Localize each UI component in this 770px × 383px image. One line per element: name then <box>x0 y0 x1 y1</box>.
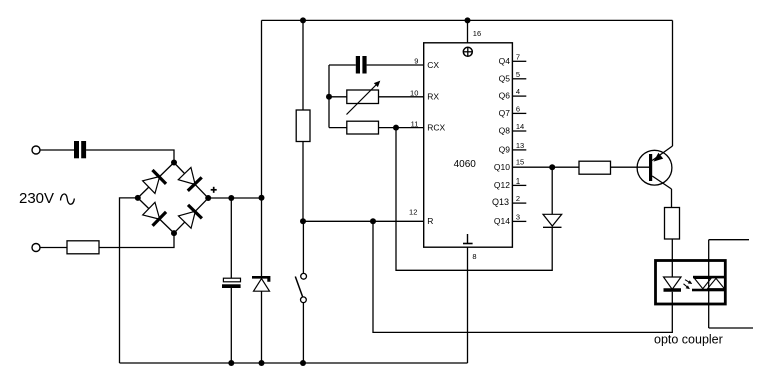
opto light arrow 1 <box>685 280 692 284</box>
svg-text:1: 1 <box>516 177 521 186</box>
wire RX left segment <box>329 96 347 98</box>
wire Q10 pin 15 line <box>512 166 579 168</box>
wire CX left segment <box>329 64 356 66</box>
wire C2 branch lower <box>230 288 232 363</box>
svg-text:8: 8 <box>472 252 476 261</box>
label plus <box>211 187 217 193</box>
wire emitter to top rail <box>672 20 674 146</box>
node Q10 diode junction <box>549 164 555 170</box>
IC U1 4060 body <box>424 43 513 247</box>
opto triac bottom bar <box>692 289 725 292</box>
svg-text:11: 11 <box>411 120 419 129</box>
resistor R5 <box>665 208 680 240</box>
wire pin 8 to bottom rail <box>467 247 469 363</box>
pin stub Q4 <box>512 60 526 62</box>
node pin16 top rail junction <box>465 17 471 23</box>
potentiometer P1 body <box>347 90 379 104</box>
AC sine symbol <box>61 194 75 204</box>
node bridge left <box>135 195 141 201</box>
svg-text:Q14: Q14 <box>494 216 510 226</box>
svg-text:5: 5 <box>516 70 520 79</box>
node loop RX junction <box>326 94 332 100</box>
potentiometer P1 arrow <box>347 81 381 115</box>
wire ZD1 to bottom rail <box>261 291 263 363</box>
node R line return junction <box>370 218 376 224</box>
svg-text:7: 7 <box>516 52 520 61</box>
wire R1 to bridge bottom node <box>99 233 174 248</box>
wire R5 to LED anode <box>671 239 673 277</box>
wire RCX right segment to pin 11 <box>379 127 424 129</box>
pin stub Q12 <box>512 184 526 186</box>
svg-text:Q8: Q8 <box>499 126 511 136</box>
node switch bottom rail junction <box>300 360 306 366</box>
wire triac top stub <box>709 239 749 241</box>
wire pin 16 to top rail <box>467 20 469 42</box>
wire C1 to bridge top node <box>86 150 174 163</box>
bridge diode D1 (left node to top node) <box>131 156 181 205</box>
pin stub Q5 <box>512 78 526 80</box>
svg-text:2: 2 <box>516 194 520 203</box>
bridge diode D3 (left node to bottom node) <box>131 191 181 240</box>
svg-text:10: 10 <box>410 88 418 97</box>
opto coupler U2 box <box>656 261 726 305</box>
svg-text:16: 16 <box>473 29 481 38</box>
bridge diode D2 (top node to right node) <box>167 156 215 205</box>
wire switch lower <box>302 303 304 363</box>
zener diode ZD1 <box>252 276 270 291</box>
opto triac left triangle <box>695 278 712 288</box>
wire oscillator loop left vertical <box>328 65 330 128</box>
wire CX right segment to pin 9 <box>367 64 424 66</box>
node RCX feedback junction <box>393 125 399 131</box>
wire bridge left node to bottom rail <box>120 198 138 363</box>
wire triac vertical <box>708 240 710 328</box>
pin stub Q6 <box>512 95 526 97</box>
node bridge top <box>171 160 177 166</box>
node bridge bottom <box>171 230 177 236</box>
svg-text:opto coupler: opto coupler <box>654 333 723 347</box>
wire switch upper <box>302 221 304 273</box>
wire terminal to C1 <box>40 149 74 151</box>
resistor R4 base resistor <box>579 161 611 174</box>
svg-text:3: 3 <box>516 212 520 221</box>
svg-text:13: 13 <box>516 141 524 150</box>
node C2 top junction <box>228 195 234 201</box>
wire bridge right node to V+ junction <box>208 197 261 199</box>
opto triac right triangle <box>708 278 725 288</box>
wire collector to R5 <box>671 189 673 208</box>
ground symbol pin 8 <box>463 234 473 244</box>
svg-text:RCX: RCX <box>427 122 445 132</box>
wire return R-line to LED cathode <box>373 221 672 332</box>
capacitor C1 <box>74 141 86 158</box>
capacitor C3 <box>356 56 367 74</box>
pin stub Q14 <box>512 220 526 222</box>
transistor Q1 <box>637 146 672 189</box>
power symbol pin 16 <box>463 47 472 56</box>
bridge diode D4 (bottom node to right node) <box>167 191 215 240</box>
node ZD1 bottom rail junction <box>259 360 265 366</box>
wire V+ vertical (top rail down to zener) <box>261 20 263 276</box>
pin stub Q7 <box>512 112 526 114</box>
wire triac bottom stub <box>709 327 753 329</box>
svg-text:4: 4 <box>516 87 520 96</box>
wire R line (pin12) <box>303 220 424 222</box>
svg-text:12: 12 <box>409 208 417 217</box>
terminal upper AC input <box>32 146 40 154</box>
svg-text:Q6: Q6 <box>499 91 511 101</box>
svg-text:230V: 230V <box>19 190 54 207</box>
pin stub Q8 <box>512 130 526 132</box>
node bridge right <box>205 195 211 201</box>
wire R2 upper <box>302 20 304 110</box>
terminal lower AC input <box>32 244 40 252</box>
svg-text:Q13: Q13 <box>492 197 509 207</box>
node top rail R2 junction <box>300 17 306 23</box>
opto LED <box>664 277 682 290</box>
wire Q10 junction to diode D5 <box>551 167 553 214</box>
svg-text:Q5: Q5 <box>499 73 511 83</box>
wire bottom rail <box>120 362 468 364</box>
opto light arrow 2 <box>684 284 690 289</box>
wire R4 to transistor base <box>611 166 651 168</box>
svg-text:9: 9 <box>414 57 418 66</box>
switch S1 <box>295 273 306 302</box>
pin stub Q13 <box>512 202 526 204</box>
pin stub Q9 <box>512 149 526 151</box>
svg-text:6: 6 <box>516 104 520 113</box>
node R-line left junction <box>300 218 306 224</box>
svg-text:Q4: Q4 <box>499 56 511 66</box>
resistor R1 <box>67 241 99 254</box>
resistor R2 <box>296 110 310 142</box>
svg-text:RX: RX <box>427 92 439 102</box>
wire top rail <box>262 19 673 21</box>
opto triac top bar <box>693 276 725 279</box>
capacitor C2 electrolytic <box>222 278 241 288</box>
node V+ rail junction <box>259 195 265 201</box>
svg-text:R: R <box>427 216 433 226</box>
wire C2 branch upper <box>230 198 232 278</box>
wire feedback RCX to diode D5 <box>396 128 552 271</box>
diode D5 <box>543 214 562 227</box>
wire R2 lower to R-line junction <box>302 142 304 222</box>
svg-text:Q9: Q9 <box>499 145 511 155</box>
svg-text:4060: 4060 <box>454 159 477 170</box>
svg-text:15: 15 <box>516 158 524 167</box>
wire terminal to R1 <box>40 247 67 249</box>
svg-text:Q12: Q12 <box>494 180 510 190</box>
svg-text:14: 14 <box>516 122 524 131</box>
wire RCX left segment <box>329 127 347 129</box>
node C2 bottom rail junction <box>228 360 234 366</box>
resistor R3 <box>347 121 379 134</box>
svg-text:Q10: Q10 <box>494 162 510 172</box>
svg-text:CX: CX <box>427 60 439 70</box>
svg-text:Q7: Q7 <box>499 108 511 118</box>
wire RX right segment to pin 10 <box>379 96 424 98</box>
